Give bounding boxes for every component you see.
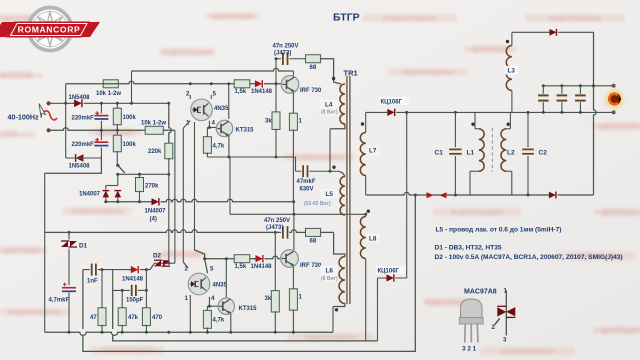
- transistor Q4 IRF730 lower: [281, 250, 299, 268]
- svg-text:47n 250V: 47n 250V: [273, 44, 299, 50]
- resistor R11 68 lower: [306, 228, 321, 236]
- svg-text:1N4148: 1N4148: [122, 277, 144, 283]
- wire L4bottom to midpoint: [330, 124, 345, 129]
- diode D13 output series: [548, 191, 557, 199]
- diode D10 1N4148 gate lower: [255, 255, 265, 263]
- svg-text:68: 68: [310, 239, 317, 245]
- svg-text:L8: L8: [369, 236, 377, 243]
- svg-text:1N4148: 1N4148: [251, 89, 273, 95]
- diode D12 KC106G upper: [387, 108, 397, 116]
- svg-text:РАДИОЛОЦМАН: РАДИОЛОЦМАН: [0, 132, 35, 139]
- svg-text:РАДИОЛОЦМАН: РАДИОЛОЦМАН: [206, 14, 258, 21]
- svg-text:3: 3: [503, 337, 507, 344]
- resistor R2 100k bottom: [116, 130, 118, 136]
- wire AC branch x=65.7: [65, 84, 67, 158]
- wire opto U2 pins: [205, 259, 208, 273]
- svg-text:4N35: 4N35: [214, 106, 229, 112]
- wire 220k chain: [169, 103, 172, 144]
- wire D1 branch: [68, 231, 71, 234]
- svg-text:1nF: 1nF: [87, 279, 98, 285]
- svg-text:L7: L7: [369, 148, 377, 155]
- label L3: [505, 66, 518, 75]
- optocoupler U2 4N35: [188, 273, 210, 295]
- spark gap arrows: [427, 192, 434, 198]
- wire IRF2 drain: [293, 214, 295, 250]
- svg-text:3 2 1: 3 2 1: [462, 346, 477, 353]
- resistor R15 4,7k lower: [206, 306, 208, 311]
- svg-text:68: 68: [310, 65, 317, 71]
- wire 47 branch: [101, 270, 103, 309]
- wire D1 to cap: [68, 249, 70, 286]
- svg-text:1,5k: 1,5k: [235, 89, 247, 95]
- inductor L3: [511, 32, 513, 45]
- label KC106G upper: [379, 97, 409, 105]
- wire drain rail lower: [229, 157, 231, 214]
- svg-text:D2 - 100v 0.5A (MAC97A, BCR1A,: D2 - 100v 0.5A (MAC97A, BCR1A, 200607, Z…: [435, 254, 623, 261]
- svg-text:РАДИОЛОЦМАН: РАДИОЛОЦМАН: [383, 16, 435, 23]
- label L4: [320, 100, 338, 116]
- diode D5 1N4148 upper: [254, 80, 264, 88]
- logo ROMANCORP banner: [0, 22, 100, 38]
- node dots gate wire upper: [189, 82, 192, 85]
- diode D6 1N4007 up-1: [103, 191, 110, 198]
- ac sine symbol: [43, 111, 57, 120]
- wire cap row to left rail: [45, 158, 102, 173]
- winding L7: [360, 133, 365, 176]
- svg-text:2: 2: [185, 266, 189, 273]
- svg-text:4,7mkF: 4,7mkF: [49, 298, 70, 304]
- svg-text:(8 Вит): (8 Вит): [321, 110, 338, 116]
- resistor R16 3k lower: [274, 232, 276, 291]
- wire switch to 220k: [118, 173, 169, 175]
- wire KT315-2 emitter: [230, 314, 232, 332]
- wire L-input: [49, 102, 169, 104]
- hv rail top: [366, 111, 614, 113]
- switch S1: [116, 164, 119, 167]
- wire N-input: [49, 128, 175, 131]
- phase dot L8: [367, 210, 370, 213]
- svg-text:РАДИОЛОЦМАН: РАДИОЛОЦМАН: [594, 328, 640, 335]
- wire diode stubs: [105, 197, 107, 201]
- svg-text:KT315: KT315: [236, 128, 255, 134]
- diode D11 KC106G lower: [386, 274, 396, 282]
- svg-text:1,5k: 1,5k: [235, 264, 247, 270]
- wire mid to L5 bottom: [293, 202, 295, 215]
- capacitor C8 47n lower: [281, 226, 289, 238]
- inductor L1: [474, 112, 476, 128]
- wire 150pF net: [112, 270, 114, 291]
- svg-text:L5: L5: [326, 191, 334, 198]
- svg-text:РАДИОЛОЦМАН: РАДИОЛОЦМАН: [9, 310, 61, 317]
- wire LED chain A: [182, 128, 184, 262]
- svg-text:L2: L2: [507, 150, 515, 157]
- diode D8 1N4007 series: [151, 198, 161, 206]
- wire IRF1 source: [292, 93, 294, 114]
- resistor R7 4,7k upper: [206, 128, 208, 138]
- wire IRF2 source: [292, 267, 294, 290]
- capacitor C9 1nF: [90, 264, 98, 276]
- wire rect to top rail: [406, 112, 408, 278]
- wire bridge diode tops: [106, 185, 118, 187]
- svg-text:1N4148: 1N4148: [251, 264, 273, 270]
- svg-text:MAC97A8: MAC97A8: [464, 289, 497, 296]
- diac D1: [61, 241, 68, 247]
- svg-text:220mkF: 220mkF: [72, 116, 95, 122]
- svg-text:2: 2: [492, 324, 496, 331]
- wire 150pF to rail3: [113, 290, 378, 341]
- output terminal plus: [612, 84, 616, 88]
- label L6: [320, 266, 338, 282]
- diode D14 HV top: [549, 28, 558, 36]
- coupling dashes: [491, 128, 493, 172]
- wire KC106G-2 branch: [377, 278, 379, 341]
- diode D7 1N4007 up-2: [115, 191, 122, 198]
- svg-text:40-100Hz: 40-100Hz: [8, 113, 40, 122]
- svg-text:2: 2: [186, 91, 190, 98]
- svg-text:150pF: 150pF: [126, 298, 144, 304]
- diode D3 1N5408 top: [74, 99, 84, 108]
- svg-text:КЦ106Г: КЦ106Г: [378, 269, 400, 275]
- svg-text:РАДИОЛОЦМАН: РАДИОЛОЦМАН: [594, 210, 640, 217]
- wire KT315-2 base: [207, 305, 217, 307]
- inductor L2: [509, 112, 511, 128]
- svg-text:РАДИОЛОЦМАН: РАДИОЛОЦМАН: [293, 155, 345, 162]
- svg-text:KT315: KT315: [239, 306, 258, 312]
- terminal T1: [47, 101, 51, 105]
- svg-text:(4): (4): [150, 217, 157, 223]
- svg-text:D1 - DB3, HT32, HT35: D1 - DB3, HT32, HT35: [435, 245, 502, 252]
- svg-text:4: 4: [211, 295, 215, 302]
- wire 47mkF branch: [296, 170, 339, 172]
- capacitor C3 220mkF top: [94, 113, 108, 122]
- wire L8 bottom leg: [365, 259, 367, 341]
- left rail: [44, 173, 46, 332]
- terminal T2: [47, 128, 51, 132]
- TO-92 package: [459, 299, 483, 343]
- svg-text:(55-65 Вит): (55-65 Вит): [304, 201, 331, 207]
- svg-text:РАДИОЛОЦМАН: РАДИОЛОЦМАН: [501, 349, 553, 356]
- spark gap rail: [366, 192, 594, 195]
- winding L5: [340, 177, 345, 216]
- wire rect-to-rail x=131.5: [131, 71, 133, 103]
- svg-text:4N35: 4N35: [213, 283, 228, 289]
- svg-text:D1: D1: [79, 243, 88, 250]
- wire snubber upper: [276, 58, 306, 60]
- svg-text:C1: C1: [435, 150, 444, 157]
- wire diode row: [66, 157, 102, 159]
- svg-text:1N5408: 1N5408: [69, 164, 91, 170]
- phase dot L1: [471, 123, 474, 126]
- svg-text:L6: L6: [326, 268, 334, 275]
- wire cap C3 leads: [100, 103, 102, 113]
- svg-text:1: 1: [186, 120, 190, 127]
- phase dot L5: [332, 166, 335, 169]
- capacitor C7 4,7mkF: [62, 287, 76, 289]
- diode D9 1N4148 lower: [130, 265, 140, 273]
- svg-text:D2: D2: [153, 253, 162, 260]
- winding L6: [339, 257, 345, 304]
- wire 1nF to bottom rail: [83, 195, 415, 351]
- wire KT315-1 emitter: [228, 136, 230, 158]
- wire 68-2 to L6: [334, 232, 345, 256]
- drain rail upper: [132, 68, 294, 71]
- resistor R10 270k: [139, 174, 141, 178]
- svg-text:47: 47: [90, 315, 97, 321]
- output terminal minus: [612, 110, 616, 114]
- transistor Q1 KT315: [216, 120, 232, 136]
- capacitor C1: [454, 112, 456, 147]
- svg-text:220mkF: 220mkF: [72, 142, 95, 148]
- resistor R13 470: [145, 270, 147, 309]
- capacitor C5 47n 250V upper: [281, 53, 289, 65]
- svg-text:КЦ106Г: КЦ106Г: [381, 100, 403, 106]
- resistor R3 10k 1-2w top: [103, 80, 118, 88]
- transistor Q3 KT315 lower: [218, 298, 234, 314]
- gate wire lower: [205, 256, 281, 259]
- diode D4 1N5408 bottom: [74, 154, 84, 163]
- label L7: [367, 146, 380, 155]
- phase dot L7: [361, 122, 364, 125]
- svg-text:1N4007: 1N4007: [145, 209, 167, 215]
- resistor R5 68 upper: [306, 55, 321, 63]
- wire opto U1 pins: [189, 95, 191, 99]
- svg-text:(J473): (J473): [274, 51, 291, 57]
- label L5: [320, 190, 338, 199]
- svg-text:РАДИОЛОЦМАН: РАДИОЛОЦМАН: [0, 248, 47, 255]
- svg-text:ROMANCORP: ROMANCORP: [18, 25, 81, 35]
- resistor R4 10k 1-2w: [145, 126, 163, 134]
- svg-text:100k: 100k: [123, 115, 137, 121]
- wire L7 top: [365, 112, 367, 132]
- svg-text:L4: L4: [325, 102, 333, 109]
- svg-text:РАДИОЛОЦМАН: РАДИОЛОЦМАН: [593, 124, 640, 131]
- svg-text:РАДИОЛОЦМАН: РАДИОЛОЦМАН: [0, 73, 43, 80]
- svg-text:47mkF: 47mkF: [297, 179, 316, 185]
- wire KT315-2 collector: [225, 259, 227, 298]
- svg-text:РАДИОЛОЦМАН: РАДИОЛОЦМАН: [451, 210, 503, 217]
- svg-text:L5 - провод лак. от 0.6 до 1мм: L5 - провод лак. от 0.6 до 1мм (5mIH-7): [436, 227, 562, 234]
- long wire D1-to-L6: [45, 230, 334, 233]
- svg-text:РАДИОЛОЦМАН: РАДИОЛОЦМАН: [161, 50, 213, 57]
- svg-text:470: 470: [152, 315, 163, 321]
- wire L6 bottom: [333, 304, 345, 307]
- svg-text:C2: C2: [539, 150, 548, 157]
- svg-text:3k: 3k: [265, 296, 272, 302]
- rectified rail mid: [106, 199, 294, 202]
- wire L8 top: [365, 214, 367, 216]
- svg-text:РАДИОЛОЦМАН: РАДИОЛОЦМАН: [402, 70, 454, 77]
- svg-text:4: 4: [212, 120, 216, 127]
- resistor R12 47k: [121, 290, 123, 308]
- svg-text:L1: L1: [467, 150, 475, 157]
- triac D2: [154, 260, 161, 266]
- transformer core: [346, 76, 348, 304]
- svg-text:3k: 3k: [265, 119, 272, 125]
- svg-text:IRF 730: IRF 730: [300, 88, 322, 94]
- phase dot L4: [332, 77, 335, 80]
- svg-text:РАДИОЛОЦМАН: РАДИОЛОЦМАН: [549, 16, 601, 23]
- resistor R6 1,5k upper: [234, 80, 250, 88]
- node dots on input wires: [64, 102, 67, 105]
- svg-text:1N4007: 1N4007: [79, 192, 101, 198]
- svg-text:5: 5: [210, 266, 214, 273]
- wire cap to rail: [68, 293, 70, 333]
- svg-text:10k 1-2w: 10k 1-2w: [96, 91, 121, 97]
- svg-text:10k 1-2w: 10k 1-2w: [141, 121, 166, 127]
- resistor R14 1,5k lower: [234, 255, 250, 263]
- transistor Q2 IRF730 upper: [281, 76, 299, 94]
- rail1 dots: [68, 331, 71, 334]
- svg-text:(J473): (J473): [266, 225, 283, 231]
- wire 1nF net: [83, 269, 150, 271]
- capacitor C10 150pF: [130, 285, 138, 296]
- triac symbol mac97: [495, 291, 516, 336]
- svg-text:(8 Вит): (8 Вит): [321, 276, 338, 282]
- resistor R9 1 upper: [289, 113, 297, 130]
- optocoupler U1 4N35: [191, 99, 213, 121]
- label L8: [367, 234, 380, 243]
- svg-text:47k: 47k: [128, 315, 139, 321]
- mouse cursor: [39, 104, 46, 118]
- wire LED chain B: [194, 122, 196, 250]
- emitter rail upper: [207, 156, 295, 158]
- svg-text:220k: 220k: [148, 149, 162, 155]
- svg-text:БТГР: БТГР: [333, 12, 360, 24]
- wire 68 to L4: [320, 59, 341, 84]
- gate wire upper: [66, 81, 282, 84]
- svg-text:100k: 100k: [123, 142, 137, 148]
- phase dot L2: [507, 123, 510, 126]
- phase dot L6: [335, 308, 338, 311]
- ground rail 1: [45, 332, 333, 335]
- logo output coil brand: [605, 90, 623, 108]
- logo ROMANCORP ornament: [29, 8, 72, 51]
- resistor R8 3k upper: [275, 59, 277, 113]
- svg-text:1N5408: 1N5408: [69, 95, 91, 101]
- winding L8: [360, 217, 365, 259]
- svg-text:IRF 730: IRF 730: [300, 263, 322, 269]
- winding L4: [340, 84, 345, 124]
- wire cap C4 leads: [100, 130, 102, 140]
- capacitor C4 220mkF bottom: [94, 139, 108, 148]
- wire L5 bottom: [344, 213, 346, 215]
- hv top wire: [512, 31, 594, 33]
- wire to D2: [150, 263, 155, 269]
- phase dot L3: [506, 40, 509, 43]
- capacitor bank C8-C10: [542, 86, 544, 94]
- svg-text:47n 250V: 47n 250V: [264, 218, 290, 224]
- resistor R1 100k top: [116, 103, 118, 109]
- label KC106G lower: [376, 266, 406, 274]
- wire KT315-1 base: [207, 127, 216, 129]
- svg-text:4,7k: 4,7k: [213, 144, 225, 150]
- cap bank bus top: [542, 85, 614, 87]
- wire L7 bottom: [365, 176, 367, 196]
- wire KT315-1 collector: [228, 84, 230, 119]
- svg-text:270k: 270k: [145, 184, 159, 190]
- wire 10k2 down to D2: [174, 130, 176, 263]
- svg-text:630V: 630V: [300, 187, 314, 193]
- svg-text:4,7k: 4,7k: [213, 318, 225, 324]
- capacitor C6 47mkF 630V: [301, 165, 309, 177]
- hv right drop: [594, 32, 597, 195]
- capacitor C2: [527, 112, 529, 147]
- svg-text:5: 5: [213, 91, 217, 98]
- svg-text:РАДИОЛОЦМАН: РАДИОЛОЦМАН: [71, 209, 123, 216]
- svg-text:1: 1: [504, 288, 508, 295]
- svg-text:L3: L3: [508, 68, 516, 75]
- svg-text:1: 1: [185, 295, 189, 302]
